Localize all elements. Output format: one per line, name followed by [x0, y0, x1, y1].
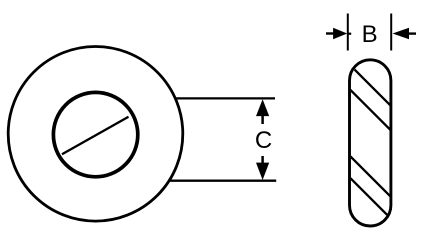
svg-text:B: B [362, 21, 378, 48]
dimension B left arrow [326, 28, 351, 40]
dimension C lower arrow [256, 156, 269, 180]
hatch line 4 [346, 174, 396, 224]
hatch line 1 [348, 63, 395, 110]
hatch line 3 [346, 152, 396, 202]
dimension B right arrow [393, 28, 417, 40]
outer circle (washer outer diameter, front view) [8, 47, 183, 222]
dimension C upper arrow [256, 99, 269, 124]
dimension B right tick [390, 14, 392, 51]
stadium outline (washer side view) [350, 60, 391, 226]
dimension B left tick [347, 14, 349, 51]
inner circle (washer hole, front view) [53, 92, 137, 176]
extension line bottom (for dimension C) [169, 180, 276, 182]
slot diagonal line inside inner circle [62, 117, 129, 154]
svg-text:C: C [255, 127, 272, 154]
extension line top (for dimension C) [175, 97, 275, 99]
hatch line 2 [346, 86, 396, 136]
